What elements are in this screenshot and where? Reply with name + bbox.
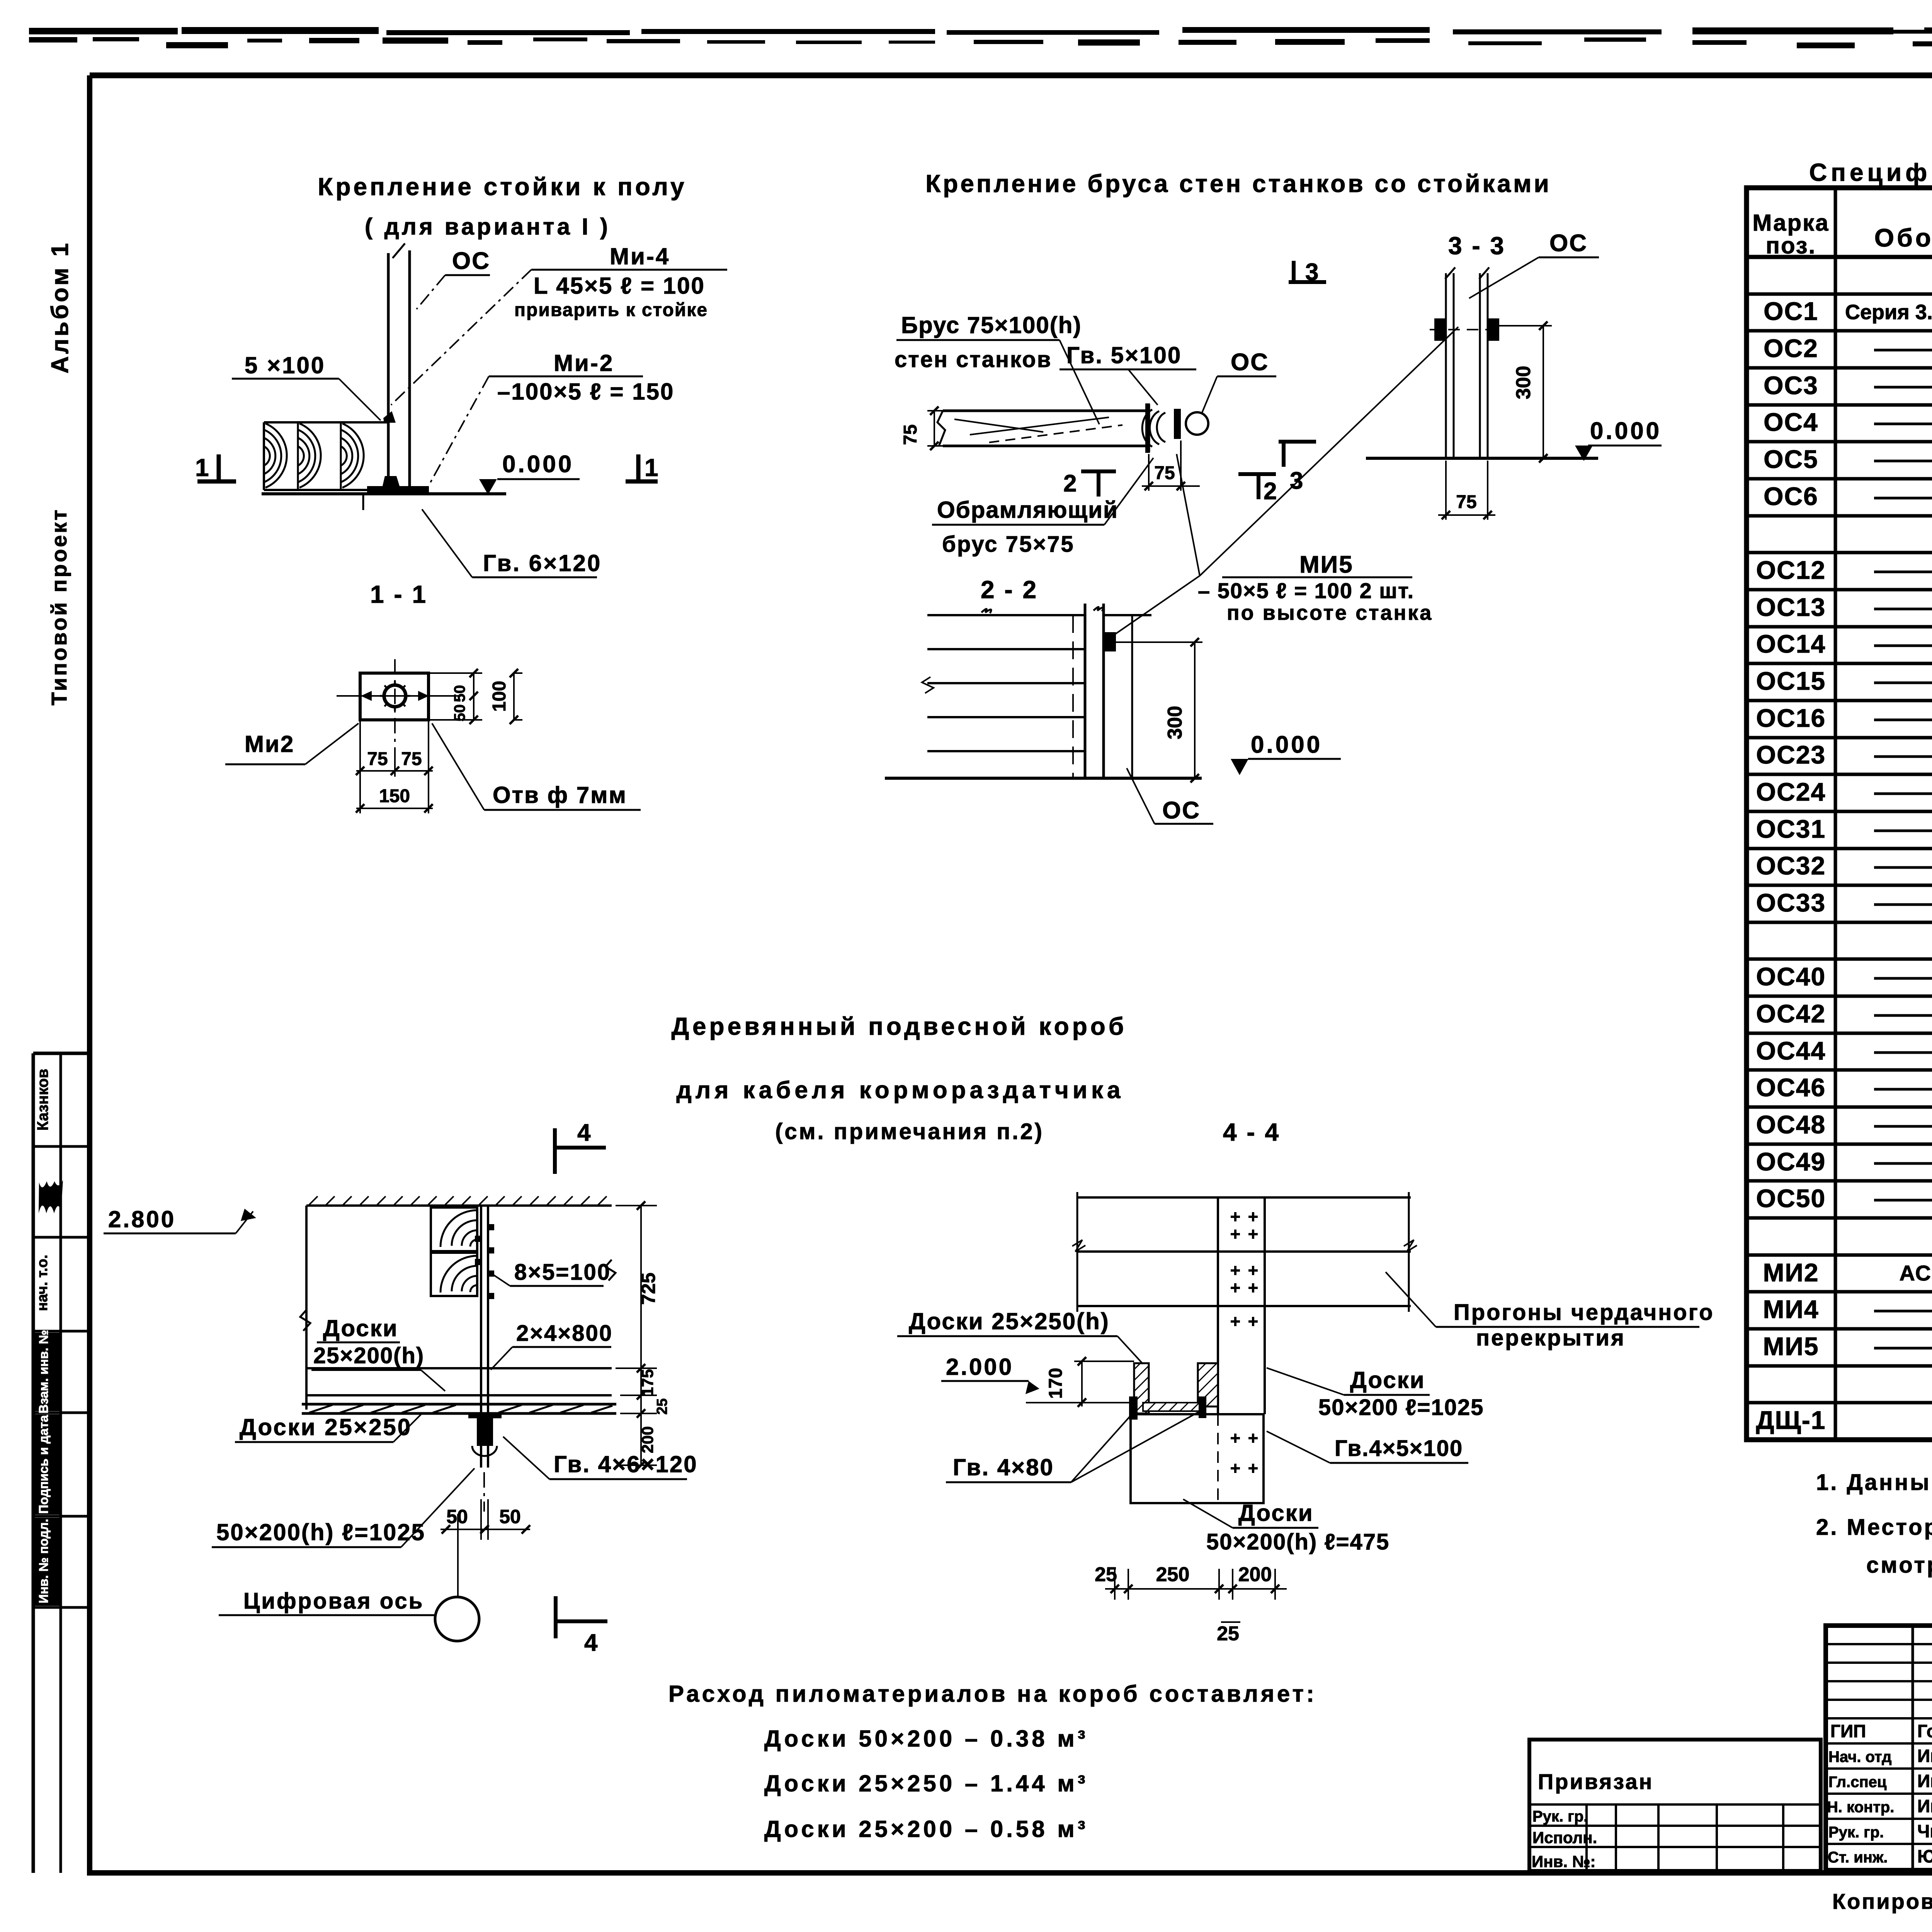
svg-text:3: 3: [1290, 468, 1303, 494]
svg-text:Иванова: Иванова: [1917, 1771, 1932, 1791]
svg-text:ОС42: ОС42: [1756, 999, 1826, 1028]
svg-text:Инв. №:: Инв. №:: [1532, 1852, 1596, 1871]
svg-text:Отв ф 7мм: Отв ф 7мм: [493, 782, 627, 808]
svg-text:нач. т.о.: нач. т.о.: [34, 1255, 51, 1311]
svg-text:Доски: Доски: [1238, 1500, 1314, 1526]
svg-text:для кабеля кормораздатчика: для кабеля кормораздатчика: [676, 1077, 1124, 1104]
svg-text:ОС15: ОС15: [1756, 667, 1826, 695]
svg-text:Доски: Доски: [1350, 1367, 1425, 1393]
svg-text:Альбом 1: Альбом 1: [47, 241, 73, 373]
svg-text:1 - 1: 1 - 1: [370, 580, 427, 608]
svg-text:ОС1: ОС1: [1764, 297, 1818, 325]
svg-text:Чирвина: Чирвина: [1917, 1821, 1932, 1841]
svg-text:Горбачева: Горбачева: [1917, 1721, 1932, 1741]
svg-text:25: 25: [654, 1398, 670, 1415]
svg-text:смотри технологические чертеш: смотри технологические чертеши.: [1866, 1553, 1932, 1578]
svg-text:1. Данный лист читать совм: 1. Данный лист читать совместно с листам…: [1816, 1470, 1932, 1495]
svg-text:200: 200: [1238, 1563, 1272, 1586]
svg-text:2.800: 2.800: [108, 1206, 176, 1232]
svg-text:2. Месторасположение короба: 2. Месторасположение короба для кабеля к…: [1816, 1515, 1932, 1540]
svg-text:725: 725: [638, 1272, 659, 1304]
svg-text:25×200(h): 25×200(h): [313, 1343, 424, 1368]
svg-text:МИ4: МИ4: [1763, 1295, 1819, 1323]
svg-text:Нач. отд: Нач. отд: [1828, 1748, 1891, 1765]
svg-text:ОС40: ОС40: [1756, 962, 1826, 991]
svg-text:170: 170: [1046, 1368, 1066, 1399]
svg-text:300: 300: [1164, 706, 1186, 740]
svg-text:Иванов Ю: Иванов Ю: [1917, 1796, 1932, 1816]
svg-text:ОС31: ОС31: [1756, 815, 1826, 843]
svg-text:L 45×5 ℓ = 100: L 45×5 ℓ = 100: [534, 273, 705, 299]
svg-text:3 - 3: 3 - 3: [1448, 232, 1505, 260]
svg-text:ГИП: ГИП: [1830, 1721, 1866, 1741]
svg-text:2.000: 2.000: [946, 1354, 1014, 1380]
svg-text:ОС: ОС: [1162, 797, 1201, 824]
svg-text:Доски 25×250 – 1.44 м³: Доски 25×250 – 1.44 м³: [764, 1770, 1088, 1796]
svg-text:25: 25: [1217, 1622, 1239, 1645]
svg-text:250: 250: [1156, 1563, 1190, 1586]
svg-text:ОС24: ОС24: [1756, 777, 1826, 806]
svg-text:поз.: поз.: [1766, 233, 1816, 259]
svg-text:75: 75: [367, 749, 388, 769]
svg-text:Рук. гр.: Рук. гр.: [1532, 1808, 1588, 1825]
svg-text:0.000: 0.000: [1590, 418, 1662, 444]
svg-text:Гв.4×5×100: Гв.4×5×100: [1335, 1436, 1463, 1461]
svg-text:стен станков: стен станков: [895, 347, 1052, 372]
svg-text:Подпись и дата: Подпись и дата: [36, 1415, 51, 1514]
svg-text:150: 150: [379, 786, 410, 806]
svg-text:ОС32: ОС32: [1756, 851, 1826, 880]
svg-text:ОС46: ОС46: [1756, 1073, 1826, 1102]
svg-text:Привязан: Привязан: [1538, 1769, 1653, 1794]
svg-text:Доски 25×250(h): Доски 25×250(h): [909, 1308, 1110, 1334]
svg-text:Прогоны чердачного: Прогоны чердачного: [1454, 1300, 1714, 1325]
svg-text:по высоте станка: по высоте станка: [1227, 601, 1433, 624]
svg-text:Крепление стойки к полу: Крепление стойки к полу: [318, 173, 687, 201]
svg-text:Цифровая ось: Цифровая ось: [243, 1588, 424, 1614]
svg-text:ОС6: ОС6: [1764, 482, 1818, 510]
svg-text:Рук. гр.: Рук. гр.: [1828, 1824, 1884, 1841]
svg-text:Ми-2: Ми-2: [554, 350, 614, 376]
svg-text:8×5=100: 8×5=100: [514, 1260, 611, 1285]
svg-text:Гв. 6×120: Гв. 6×120: [483, 550, 602, 576]
svg-text:Деревянный подвесной короб: Деревянный подвесной короб: [672, 1012, 1127, 1040]
svg-text:Брус 75×100(h): Брус 75×100(h): [901, 312, 1082, 338]
svg-text:0.000: 0.000: [502, 451, 574, 478]
svg-text:50: 50: [451, 685, 468, 702]
svg-text:50: 50: [451, 704, 468, 722]
svg-text:0.000: 0.000: [1251, 731, 1322, 758]
svg-text:75: 75: [401, 749, 422, 769]
svg-text:2 - 2: 2 - 2: [981, 576, 1038, 604]
svg-text:ОС16: ОС16: [1756, 704, 1826, 732]
svg-text:Крепление бруса стен станко: Крепление бруса стен станков со стойками: [925, 170, 1551, 197]
svg-text:2: 2: [1264, 478, 1277, 505]
svg-text:ОС49: ОС49: [1756, 1147, 1826, 1176]
svg-text:Обрамляющий: Обрамляющий: [937, 497, 1118, 523]
svg-text:Ст. инж.: Ст. инж.: [1828, 1849, 1888, 1866]
svg-text:ОС: ОС: [1231, 349, 1269, 376]
svg-text:3: 3: [1305, 259, 1318, 286]
svg-text:5 ×100: 5 ×100: [245, 352, 325, 378]
svg-text:МИ5: МИ5: [1763, 1332, 1819, 1361]
svg-text:ОС5: ОС5: [1764, 445, 1818, 473]
svg-text:Доски: Доски: [323, 1315, 398, 1341]
svg-text:Взам. инв. №: Взам. инв. №: [36, 1330, 51, 1414]
svg-text:брус 75×75: брус 75×75: [942, 532, 1075, 557]
svg-text:Н. контр.: Н. контр.: [1827, 1799, 1894, 1816]
svg-text:ОС12: ОС12: [1756, 556, 1826, 584]
svg-text:МИ5: МИ5: [1299, 551, 1354, 578]
svg-text:50×200(h) ℓ=1025: 50×200(h) ℓ=1025: [216, 1519, 425, 1545]
svg-text:Ми-4: Ми-4: [610, 243, 670, 269]
svg-text:АС-33; АС-34: АС-33; АС-34: [1899, 1261, 1932, 1285]
svg-text:Расход пиломатериалов на ко: Расход пиломатериалов на короб составляе…: [668, 1681, 1317, 1707]
svg-text:Доски 25×200 – 0.58 м³: Доски 25×200 – 0.58 м³: [764, 1816, 1088, 1842]
svg-text:Гв. 4×6×120: Гв. 4×6×120: [554, 1451, 698, 1477]
svg-text:Типовой проект: Типовой проект: [47, 508, 71, 705]
svg-text:4: 4: [577, 1119, 591, 1146]
svg-text:ОС23: ОС23: [1756, 740, 1826, 769]
svg-text:ОС48: ОС48: [1756, 1110, 1826, 1139]
svg-text:– 50×5 ℓ = 100 2 шт.: – 50×5 ℓ = 100 2 шт.: [1198, 578, 1414, 603]
svg-text:Казнков: Казнков: [34, 1069, 51, 1131]
svg-text:300: 300: [1512, 366, 1535, 400]
svg-text:4 - 4: 4 - 4: [1223, 1118, 1280, 1146]
svg-text:2: 2: [1063, 470, 1077, 497]
svg-text:Обозначение: Обозначение: [1874, 223, 1932, 252]
svg-text:Доски 50×200 – 0.38 м³: Доски 50×200 – 0.38 м³: [764, 1726, 1088, 1752]
svg-text:перекрытия: перекрытия: [1476, 1325, 1626, 1350]
svg-text:ОС3: ОС3: [1764, 371, 1818, 400]
svg-text:–100×5 ℓ = 150: –100×5 ℓ = 150: [497, 379, 674, 405]
svg-text:МИ2: МИ2: [1763, 1258, 1819, 1287]
svg-text:ОС: ОС: [1549, 230, 1588, 257]
svg-text:ДЩ-1: ДЩ-1: [1756, 1406, 1826, 1434]
svg-text:Гв. 5×100: Гв. 5×100: [1066, 342, 1182, 368]
svg-text:100: 100: [489, 681, 510, 712]
svg-text:ОС50: ОС50: [1756, 1184, 1826, 1213]
svg-text:ОС: ОС: [452, 248, 490, 274]
svg-text:Иванов В: Иванов В: [1917, 1746, 1932, 1766]
svg-text:Гл.спец: Гл.спец: [1828, 1774, 1887, 1791]
svg-text:1: 1: [195, 454, 209, 481]
svg-text:200: 200: [638, 1426, 656, 1453]
svg-text:ОС33: ОС33: [1756, 888, 1826, 917]
svg-text:Исполн.: Исполн.: [1532, 1828, 1597, 1847]
svg-text:2×4×800: 2×4×800: [516, 1321, 613, 1346]
svg-text:50×200 ℓ=1025: 50×200 ℓ=1025: [1318, 1395, 1484, 1420]
svg-text:50: 50: [499, 1506, 521, 1527]
svg-text:Ми2: Ми2: [245, 731, 294, 757]
svg-text:ОС44: ОС44: [1756, 1036, 1826, 1065]
svg-text:4: 4: [584, 1629, 598, 1656]
svg-text:25: 25: [1095, 1563, 1117, 1586]
svg-text:Марка: Марка: [1752, 210, 1829, 236]
svg-text:(см. примечания п.2): (см. примечания п.2): [775, 1119, 1044, 1144]
svg-text:50×200(h) ℓ=475: 50×200(h) ℓ=475: [1206, 1529, 1389, 1554]
svg-text:175: 175: [638, 1369, 656, 1396]
svg-text:ОС2: ОС2: [1764, 334, 1818, 362]
svg-text:приварить к стойке: приварить к стойке: [514, 300, 708, 320]
svg-text:Копировал: Емавская: Копировал: Емавская: [1832, 1889, 1932, 1913]
svg-text:Доски 25×250: Доски 25×250: [240, 1414, 412, 1440]
svg-text:ОС4: ОС4: [1764, 408, 1818, 436]
svg-text:75: 75: [1154, 463, 1175, 483]
svg-text:Инв. № подл.: Инв. № подл.: [36, 1519, 51, 1604]
svg-text:Гв. 4×80: Гв. 4×80: [953, 1454, 1054, 1480]
svg-text:ОС13: ОС13: [1756, 593, 1826, 621]
svg-text:75: 75: [900, 424, 921, 445]
svg-text:75: 75: [1456, 492, 1476, 512]
svg-text:ОС14: ОС14: [1756, 629, 1826, 658]
svg-text:( для варианта I ): ( для варианта I ): [365, 214, 611, 240]
svg-text:Серия 3.818.9-2 вып.5: Серия 3.818.9-2 вып.5: [1845, 301, 1932, 324]
svg-text:1: 1: [645, 454, 658, 481]
svg-text:Юхневич: Юхневич: [1917, 1846, 1932, 1866]
svg-text:Спецификация к схеме расста: Спецификация к схеме расстановки станков: [1809, 158, 1932, 186]
